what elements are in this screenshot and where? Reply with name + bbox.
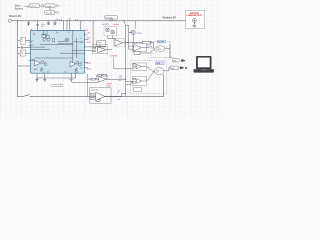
transistor Q2 <box>43 39 46 42</box>
svg-text:o1: o1 <box>81 38 83 40</box>
component R int <box>52 39 55 42</box>
transistor Q4 <box>41 61 44 64</box>
wire cluster to U3 a <box>108 36 116 41</box>
wire ground bus below driver <box>36 77 76 79</box>
wire internal sense drop B <box>76 72 78 74</box>
wire out to snubber <box>84 46 106 48</box>
node right of switch <box>56 5 61 8</box>
wire bus drop to snubber <box>92 21 94 47</box>
resistor R5 under U5 <box>134 52 140 55</box>
wire Q10 base <box>129 31 132 33</box>
transistor cluster box <box>104 27 117 36</box>
bottom rail wire right <box>30 96 164 98</box>
svg-text:PWM: PWM <box>156 63 161 65</box>
svg-text:o2: o2 <box>81 42 83 44</box>
wire motor1 shaft out <box>170 44 172 57</box>
wire internal h4 <box>72 49 85 51</box>
resistor network box <box>134 88 142 92</box>
wire input pin stub left 3 <box>29 59 35 62</box>
svg-text:R2: R2 <box>21 51 23 53</box>
transistor Q7 <box>78 63 81 66</box>
motor block M1 dashed <box>151 42 171 58</box>
svg-text:In2: In2 <box>32 44 34 46</box>
svg-text:ACS712: ACS712 <box>103 23 109 26</box>
svg-text:5A max: 5A max <box>113 23 119 26</box>
transistor Q8 <box>106 28 110 32</box>
wire U6 out <box>142 66 147 68</box>
bottom rail wire <box>18 96 22 98</box>
encoder box E1 <box>172 59 179 63</box>
svg-text:USB: USB <box>173 60 176 62</box>
input conditioning box 2 <box>18 50 31 56</box>
ground charger <box>192 25 196 27</box>
transistor Q1 <box>47 38 50 41</box>
transistor Q10 <box>129 30 135 34</box>
wire out pin right <box>84 39 88 41</box>
label Main Battery <box>15 3 24 10</box>
wire bus stub to Q10 <box>134 21 136 29</box>
motor driver IC U1 body <box>30 30 84 73</box>
battery charger test box <box>186 10 205 28</box>
connector J1 <box>8 19 11 22</box>
wire internal h2b <box>40 44 73 46</box>
svg-text:o4: o4 <box>81 68 83 70</box>
wire sense tap to comparator <box>71 82 99 84</box>
wire cross M1 b <box>151 46 157 52</box>
wire switch to fuse <box>49 8 51 11</box>
svg-text:MOTOR: MOTOR <box>158 41 165 43</box>
junction <box>95 46 96 47</box>
wire U3 out <box>123 42 126 44</box>
op-amp U6 <box>137 64 142 68</box>
wire cluster to U3 b <box>112 36 114 39</box>
resistor RU4a <box>93 48 96 49</box>
svg-text:100n: 100n <box>68 19 72 21</box>
wire U9 inputs <box>126 82 133 85</box>
wire internal v2 <box>77 38 85 58</box>
usb plug icon 2 <box>180 67 187 69</box>
svg-text:OUT4: OUT4 <box>86 68 91 70</box>
wire resistor to motor1 <box>151 43 154 48</box>
op-amp U9 <box>137 79 142 84</box>
resistor RB1 <box>91 93 95 95</box>
svg-text:LM358N: LM358N <box>111 55 118 57</box>
capacitor C3 on bus <box>54 21 57 25</box>
resistor Rs2 <box>75 68 77 72</box>
wire bus drop <box>80 21 82 31</box>
op-amp A2 <box>70 61 75 66</box>
wire motor1 oval out <box>165 48 170 50</box>
legend note <box>50 83 64 88</box>
wire U4 out route down <box>114 57 133 68</box>
charger jack symbol <box>193 19 197 26</box>
connector plug symbol <box>40 5 45 7</box>
wire U7 out <box>107 78 126 80</box>
op-amp U5 <box>134 45 142 52</box>
resistor RA in2 <box>133 67 136 68</box>
node right of fuse <box>56 12 61 15</box>
svg-text:R1: R1 <box>21 39 23 41</box>
transistor Q6 <box>76 61 79 64</box>
wire internal h2 <box>58 40 65 42</box>
op-amp stage A input resistor <box>88 78 99 80</box>
wire rail up to pwm oval <box>163 74 165 96</box>
ground GND3 <box>70 79 73 81</box>
motor M1 oval <box>157 46 165 52</box>
wire R5 to motor1 <box>140 52 151 54</box>
resistor RA in1 <box>133 64 136 65</box>
svg-text:G=11: G=11 <box>107 86 111 88</box>
input conditioning box 1 <box>18 38 31 45</box>
svg-text:Vss: Vss <box>56 32 59 34</box>
svg-text:C2: C2 <box>21 54 23 56</box>
svg-text:Vbat 6-9V: Vbat 6-9V <box>9 14 22 18</box>
op-amp U7 <box>99 77 107 82</box>
op-amp U4 box <box>93 45 108 54</box>
current sensor box U2 <box>105 16 117 19</box>
wire driver bottom pin 3 <box>70 73 72 79</box>
wire U4 out <box>106 49 112 51</box>
resistor RB3 <box>96 100 100 102</box>
op-amp U3 box <box>113 38 124 47</box>
wire mid vertical <box>124 21 126 97</box>
svg-text:OUT2: OUT2 <box>86 42 91 44</box>
transistor Q3 <box>65 38 69 42</box>
wire cross A <box>147 67 155 73</box>
wire negative rail down <box>17 21 19 97</box>
logic block box <box>42 35 46 38</box>
wire internal v3 <box>43 30 47 35</box>
usb plug icon 1 <box>181 59 185 61</box>
wire bus drop mid <box>66 21 68 31</box>
wire bus drop <box>69 21 71 31</box>
label cap value <box>41 24 45 28</box>
svg-text:USB: USB <box>171 68 174 70</box>
logic block box 2 <box>46 36 49 39</box>
wire left rail to pin <box>18 65 31 67</box>
svg-text:In1: In1 <box>32 40 34 42</box>
wire out pin right 2 <box>84 34 87 36</box>
wire U9 out <box>142 80 147 82</box>
svg-text:gnd: gnd <box>47 72 50 74</box>
svg-text:Battery: Battery <box>15 6 24 10</box>
wire oval out <box>164 70 167 72</box>
junction dot U7 out <box>124 78 127 81</box>
wire internal h5 <box>60 52 84 54</box>
transistor Q5 <box>44 63 47 66</box>
wire out pin right 4 <box>84 67 88 69</box>
pwm driver dashed box <box>131 61 167 94</box>
svg-text:—▸ current dir B: —▸ current dir B <box>50 85 64 88</box>
laptop <box>194 56 214 73</box>
svg-text:DC: DC <box>158 47 160 49</box>
wire input pin stub left 2 <box>29 45 32 47</box>
motor M1 header <box>157 40 165 43</box>
wire internal h1b <box>30 49 50 51</box>
svg-text:Switch: Switch <box>46 5 51 8</box>
snubber box <box>97 41 106 47</box>
fuse box F1 <box>45 11 55 15</box>
capacitor C5 left rail to pin <box>18 46 31 49</box>
svg-text:Vbattery 9V: Vbattery 9V <box>162 15 176 19</box>
wire drive line motor1 <box>126 42 143 44</box>
wire bus to driver VSS pin <box>63 21 65 31</box>
wire internal h6 <box>35 57 73 59</box>
wire driver bottom pin 2 <box>44 73 46 80</box>
wire U5 inputs <box>129 46 134 49</box>
svg-text:Hall sens.: Hall sens. <box>106 17 114 19</box>
resistor Rs1 <box>40 67 42 71</box>
wire U5 out <box>141 46 151 47</box>
wire internal h1 <box>30 46 45 48</box>
capacitor C1 on bus <box>27 21 30 26</box>
ground GND1 <box>35 80 38 82</box>
comparator block box <box>90 88 112 103</box>
resistor RB in2 <box>133 82 136 83</box>
resistor sensor to bus <box>110 19 112 21</box>
label gain red <box>107 83 112 87</box>
battery holder box B1 <box>29 4 39 8</box>
pwm driver header <box>156 62 165 65</box>
wire mid vertical 2 <box>126 26 129 50</box>
op-amp block A box <box>132 63 146 71</box>
capacitor C0 ticks on bus <box>76 19 78 21</box>
wire arrow from Main Battery to holder box <box>24 6 29 7</box>
wire sense feed up from rail <box>87 74 89 97</box>
op-amp U3 <box>115 40 123 47</box>
capacitor C0b ticks on bus <box>60 19 62 21</box>
svg-text:TIP120: TIP120 <box>136 33 142 35</box>
pwm oval <box>154 68 164 75</box>
svg-text:C1: C1 <box>21 41 23 43</box>
wire cross B <box>147 70 155 81</box>
svg-text:diode: diode <box>98 42 102 44</box>
junction <box>17 20 18 21</box>
switch blade S2 <box>22 95 30 97</box>
svg-text:Fuse 5A: Fuse 5A <box>46 11 53 14</box>
pin stub top left <box>31 29 33 31</box>
svg-text:Vs: Vs <box>68 32 70 34</box>
wire cross M1 a <box>151 46 157 52</box>
wire internal sense drop A <box>42 72 44 74</box>
svg-text:CHARGER TEST: CHARGER TEST <box>186 14 203 17</box>
wire out2 to U4 input <box>84 49 93 52</box>
feedback resistor RA2 <box>103 74 108 79</box>
wire U8 out <box>105 94 126 97</box>
ground GND2 <box>43 80 46 82</box>
junction dot U8 out <box>124 92 127 95</box>
op-amp U5 box <box>132 44 146 52</box>
capacitor C2 on bus <box>47 21 50 25</box>
wire to encoder2 <box>167 68 170 71</box>
wire bus to driver VS pin <box>37 21 39 31</box>
junction <box>124 20 125 21</box>
svg-text:100uF: 100uF <box>41 24 45 26</box>
op-amp U8 <box>96 93 105 101</box>
transistor Q9 <box>111 30 115 34</box>
resistor R3 <box>142 41 150 44</box>
wire internal v1 <box>73 30 77 64</box>
wire internal h3 <box>58 43 73 45</box>
svg-text:25V: 25V <box>41 26 44 28</box>
svg-text:drive: drive <box>156 71 159 73</box>
wire driver bottom pin 1 <box>36 73 38 80</box>
encoder box E2 <box>170 66 178 70</box>
resistor RB2 <box>91 98 95 100</box>
feedback resistor RA1 <box>97 74 103 79</box>
op-amp A1 <box>34 60 40 65</box>
wire out pin right 3 <box>84 62 88 64</box>
svg-text:sen: sen <box>64 72 66 74</box>
junction dots on bus <box>37 19 112 22</box>
resistor RB in1 <box>133 78 136 79</box>
wire Q10 emitter down <box>132 34 134 42</box>
switch box S1 <box>45 4 55 8</box>
svg-text:ISEN: ISEN <box>33 69 38 71</box>
wire main bus VBAT <box>12 20 186 22</box>
capacitor on VS drop <box>36 24 38 25</box>
wire input pin stub left 1 <box>29 41 32 43</box>
svg-text:OUT3: OUT3 <box>86 63 91 65</box>
wire driver bottom pin 4 <box>75 73 77 78</box>
op-amp U4 <box>98 47 107 53</box>
op-amp block B box <box>132 77 146 86</box>
resistor RU4b <box>93 50 96 51</box>
svg-text:6x1.5V: 6x1.5V <box>31 6 37 8</box>
